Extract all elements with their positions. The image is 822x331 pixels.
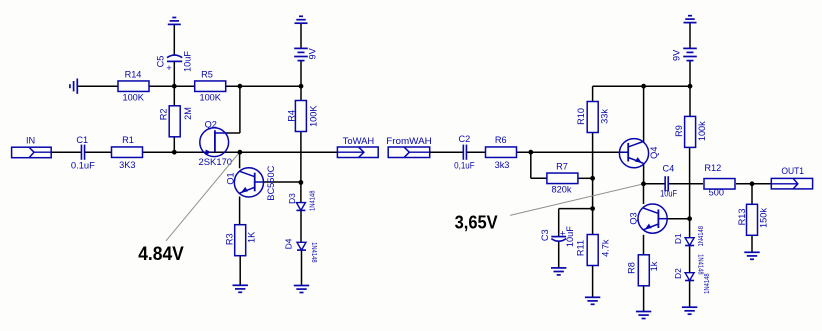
svg-text:1N4148: 1N4148 — [698, 226, 705, 247]
svg-text:Q1: Q1 — [226, 172, 236, 184]
svg-text:1N4148: 1N4148 — [704, 273, 711, 294]
svg-text:0.1uF: 0.1uF — [71, 161, 95, 171]
svg-text:150k: 150k — [758, 208, 768, 228]
svg-text:100K: 100K — [122, 93, 144, 103]
svg-text:1N4148: 1N4148 — [310, 242, 317, 263]
svg-text:1K: 1K — [246, 231, 256, 243]
svg-text:3K3: 3K3 — [119, 160, 135, 170]
svg-text:10uF: 10uF — [660, 189, 677, 199]
svg-text:R3: R3 — [224, 233, 234, 245]
svg-text:C1: C1 — [76, 135, 88, 145]
svg-text:1k: 1k — [649, 261, 659, 271]
svg-text:Q2: Q2 — [205, 120, 217, 130]
svg-text:R5: R5 — [201, 70, 213, 80]
svg-text:4.7k: 4.7k — [601, 239, 611, 257]
svg-text:R4: R4 — [287, 110, 297, 122]
svg-text:D2: D2 — [673, 268, 683, 279]
svg-text:100k: 100k — [697, 121, 707, 141]
svg-text:ToWAH: ToWAH — [343, 136, 375, 146]
svg-text:R7: R7 — [556, 161, 568, 171]
svg-text:R1: R1 — [122, 135, 134, 145]
svg-text:Q3: Q3 — [629, 212, 639, 224]
svg-text:+: + — [560, 228, 566, 239]
svg-text:C4: C4 — [663, 164, 675, 174]
svg-text:R10: R10 — [576, 108, 586, 125]
svg-text:OUT1: OUT1 — [781, 166, 804, 176]
svg-text:D1: D1 — [673, 233, 683, 244]
svg-text:100K: 100K — [199, 93, 221, 103]
svg-text:R13: R13 — [737, 209, 747, 226]
svg-text:R9: R9 — [674, 125, 684, 137]
svg-text:R2: R2 — [159, 109, 169, 121]
svg-text:10uF: 10uF — [182, 51, 192, 72]
svg-text:BC550C: BC550C — [266, 165, 276, 200]
svg-text:2SK170: 2SK170 — [199, 157, 233, 167]
svg-text:+: + — [166, 63, 172, 74]
svg-text:D3: D3 — [287, 193, 297, 204]
svg-text:Q4: Q4 — [649, 147, 659, 159]
svg-text:9V: 9V — [308, 47, 318, 59]
svg-text:C2: C2 — [459, 134, 471, 144]
svg-text:1N4148: 1N4148 — [696, 254, 703, 275]
svg-text:2M: 2M — [183, 107, 193, 120]
svg-text:820k: 820k — [552, 184, 572, 194]
svg-text:R11: R11 — [576, 240, 586, 256]
svg-text:R6: R6 — [495, 135, 507, 145]
svg-text:0,1uF: 0,1uF — [454, 161, 475, 171]
svg-text:C3: C3 — [540, 229, 550, 241]
svg-text:R14: R14 — [125, 70, 142, 80]
svg-text:1N4148: 1N4148 — [310, 190, 317, 211]
svg-text:3k3: 3k3 — [495, 160, 510, 170]
svg-text:500: 500 — [709, 187, 724, 197]
svg-text:4.84V: 4.84V — [138, 244, 184, 265]
svg-text:100K: 100K — [309, 105, 319, 127]
svg-text:R12: R12 — [704, 163, 721, 173]
svg-text:3,65V: 3,65V — [455, 212, 499, 233]
svg-text:D4: D4 — [284, 238, 294, 249]
svg-text:C5: C5 — [156, 56, 166, 68]
svg-text:9V: 9V — [672, 49, 682, 61]
svg-text:FromWAH: FromWAH — [386, 136, 432, 146]
svg-text:10uF: 10uF — [565, 226, 575, 247]
svg-text:33k: 33k — [600, 109, 610, 124]
svg-text:R8: R8 — [626, 262, 636, 274]
svg-text:IN: IN — [26, 136, 35, 146]
